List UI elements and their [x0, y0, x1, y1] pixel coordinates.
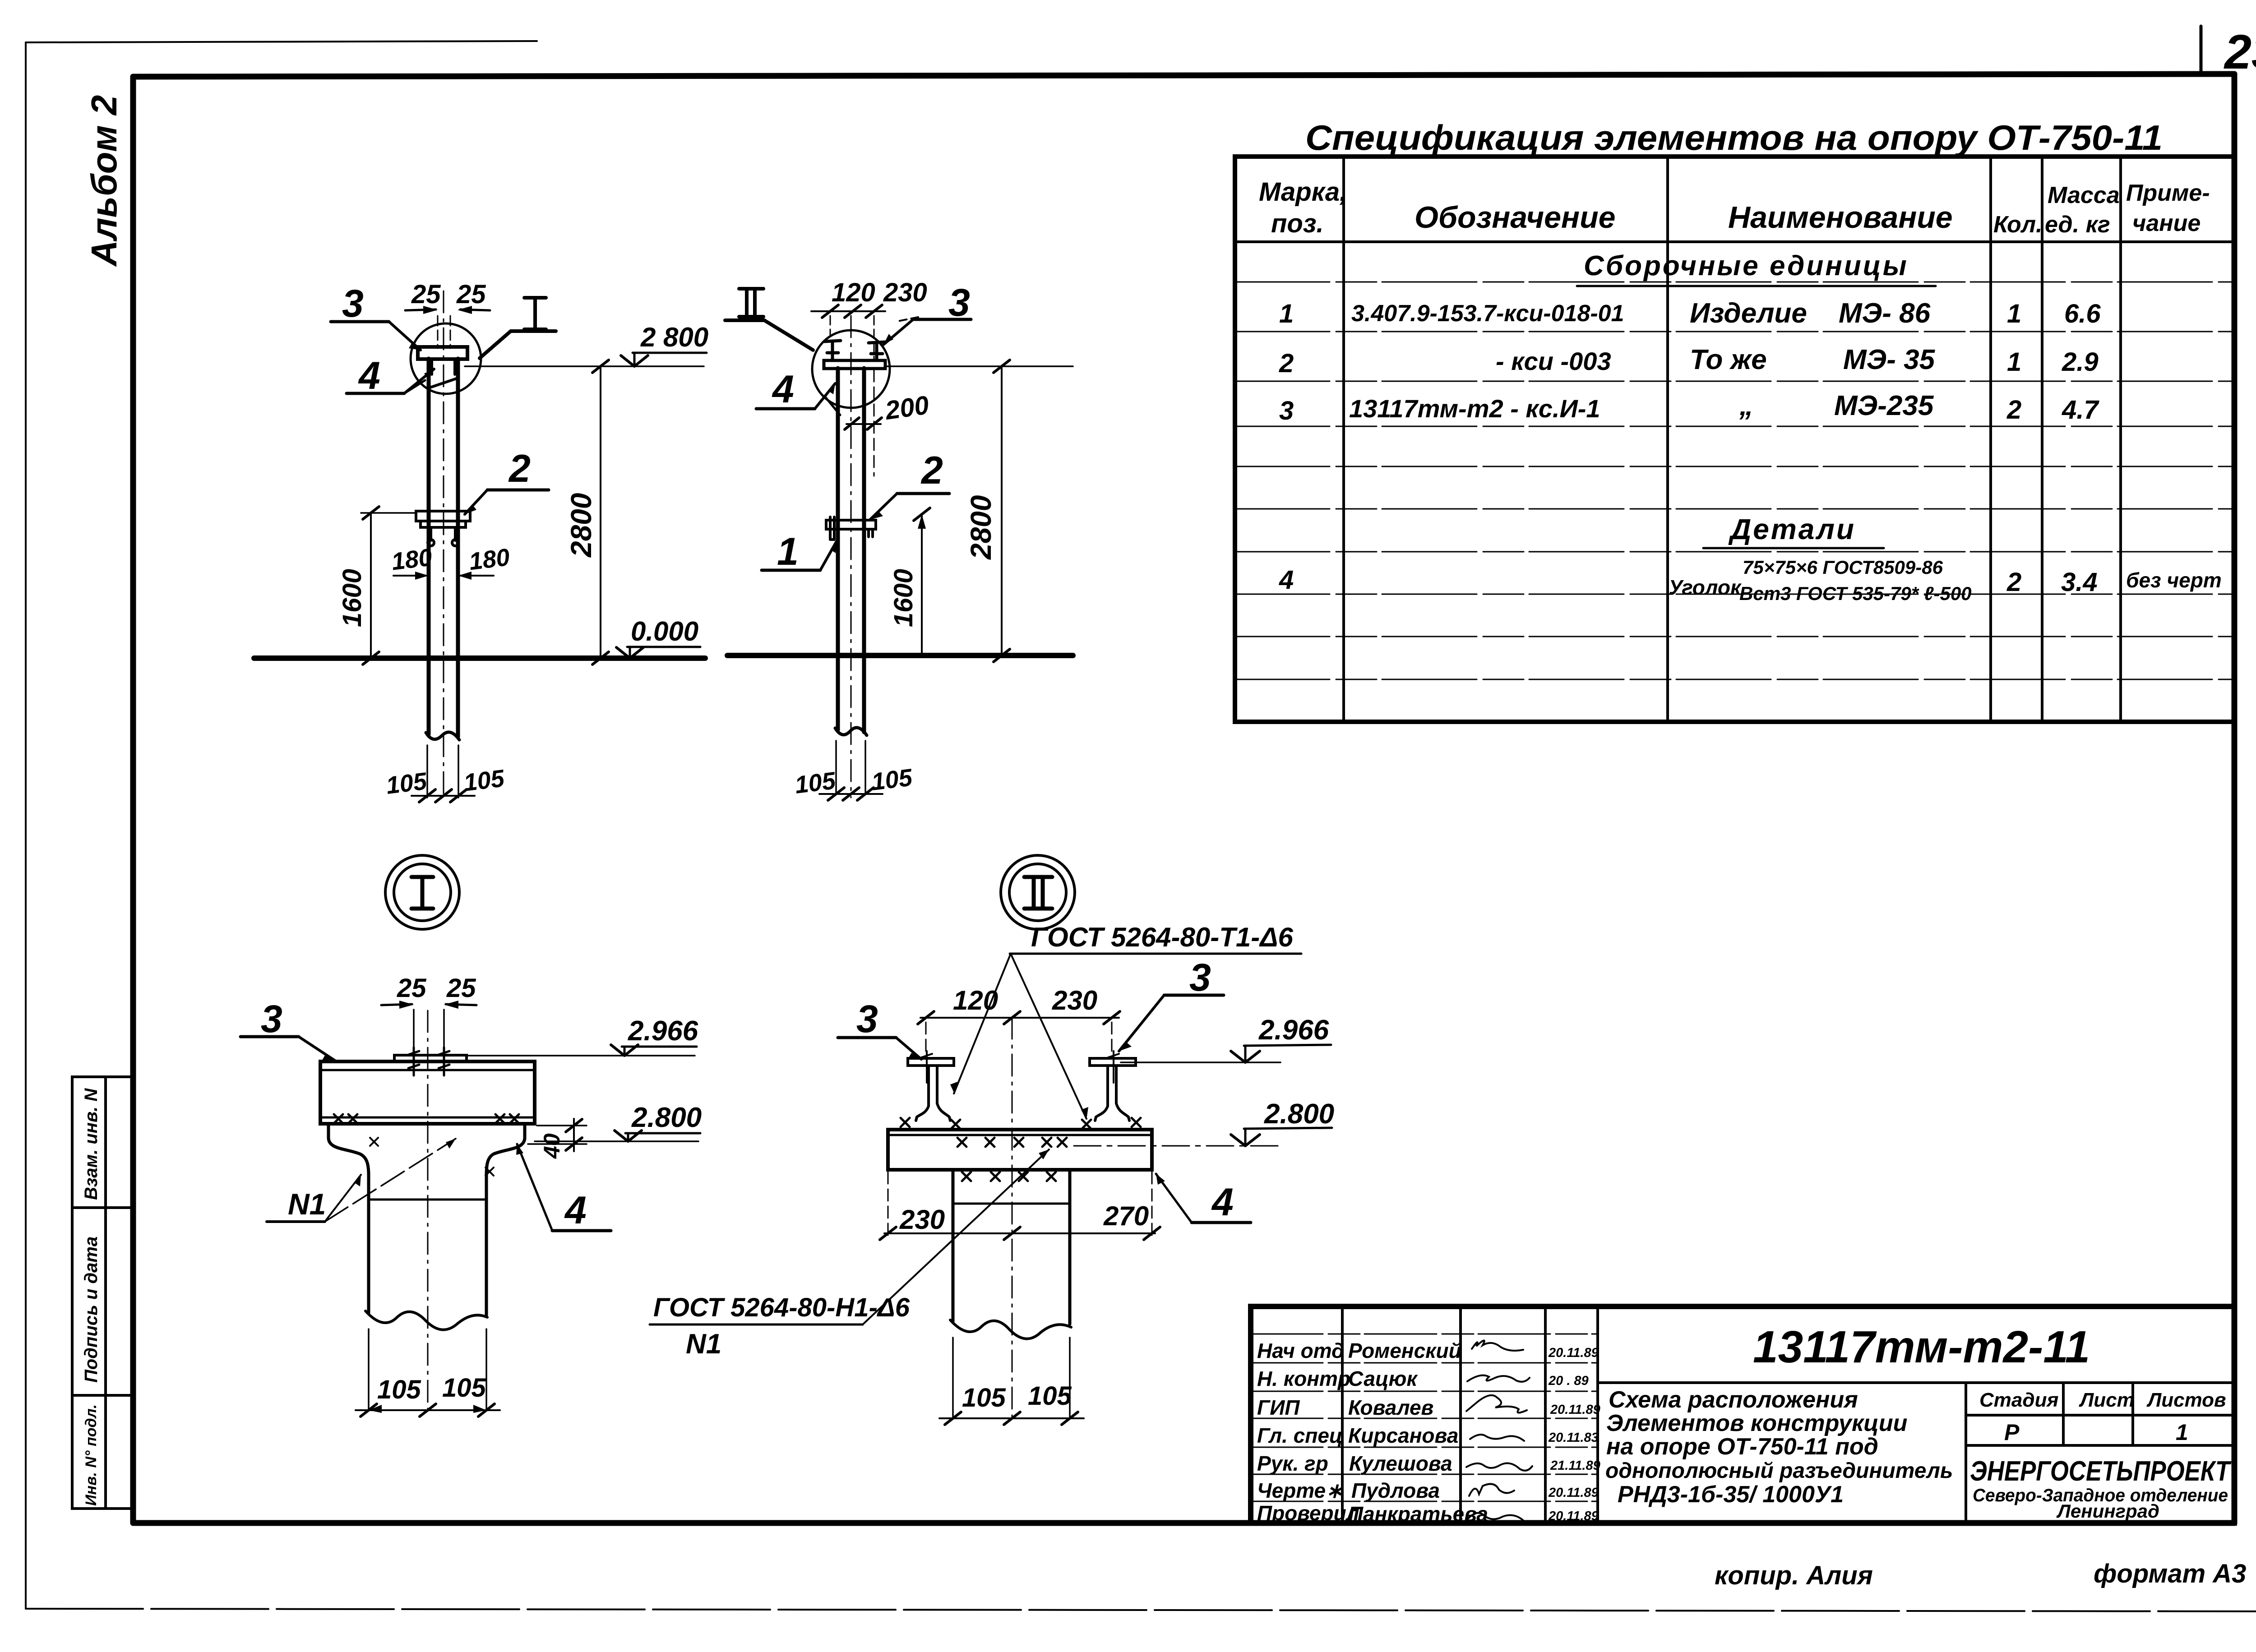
pole2 collar element 1 — [826, 517, 876, 540]
svg-text:Роменский: Роменский — [1348, 1339, 1461, 1362]
svg-text:2800: 2800 — [565, 493, 597, 558]
svg-text:105: 105 — [870, 764, 914, 796]
svg-text:4: 4 — [564, 1189, 587, 1232]
detailI dim 25 25 — [381, 974, 476, 1061]
svg-text:105: 105 — [384, 767, 429, 799]
svg-text:3.4: 3.4 — [2061, 568, 2098, 597]
svg-text:2.800: 2.800 — [631, 1102, 702, 1133]
svg-text:0.000: 0.000 — [631, 616, 698, 646]
svg-text:4: 4 — [1279, 565, 1294, 595]
table row 3 — [1279, 390, 2099, 425]
detailII beam weld X row top — [957, 1138, 1067, 1147]
svg-text:Кулешова: Кулешова — [1349, 1452, 1452, 1475]
svg-text:Обозначение: Обозначение — [1415, 200, 1615, 235]
svg-text:105: 105 — [1028, 1381, 1072, 1411]
detailI dim 40 — [528, 1119, 587, 1159]
detailI label 3 — [240, 997, 336, 1061]
detailI label N1 — [267, 1139, 456, 1222]
svg-text:20.11.89: 20.11.89 — [1548, 1346, 1599, 1360]
pole2 body — [838, 368, 864, 732]
detailI dim 105 105 — [356, 1373, 500, 1417]
pole1 cap plate — [418, 347, 467, 359]
svg-text:Сборочные единицы: Сборочные единицы — [1584, 250, 1909, 281]
svg-text:Лист: Лист — [2079, 1389, 2135, 1411]
weld label GOST T1 — [950, 922, 1301, 1120]
detailII left rail — [908, 1051, 954, 1121]
title block signatures — [1466, 1340, 1532, 1521]
svg-text:МЭ-235: МЭ-235 — [1834, 390, 1934, 421]
svg-text:1: 1 — [1279, 299, 1294, 328]
svg-text:2.966: 2.966 — [1258, 1015, 1329, 1046]
pole2 label 4 — [756, 368, 840, 415]
svg-text:13117тм-т2-11: 13117тм-т2-11 — [1753, 1322, 2090, 1372]
svg-text:однополюсный разъединитель: однополюсный разъединитель — [1605, 1459, 1953, 1483]
detailI flange right curve — [486, 1124, 525, 1176]
svg-text:230: 230 — [883, 278, 927, 307]
svg-text:ед. кг: ед. кг — [2045, 212, 2110, 238]
svg-text:Н. контр: Н. контр — [1257, 1367, 1350, 1390]
specification table grid — [1235, 157, 2234, 722]
detailI bolts — [408, 1047, 449, 1075]
svg-text:2: 2 — [508, 447, 531, 490]
svg-text:1: 1 — [777, 530, 799, 573]
svg-text:20.11.83: 20.11.83 — [1548, 1431, 1599, 1445]
pole1 dim 25 25 — [405, 280, 490, 348]
pole2 detail circle II — [812, 330, 890, 408]
svg-text:чание: чание — [2132, 210, 2201, 236]
detailII break wave — [950, 1320, 1071, 1339]
detailII label 4 — [1156, 1174, 1251, 1224]
pole2 left angle piece — [824, 341, 841, 360]
svg-text:Спецификация элементов на: Спецификация элементов на опору ОТ-750-1… — [1305, 118, 2163, 157]
pole1 dim 105 105 — [384, 765, 506, 802]
svg-text:1: 1 — [2007, 347, 2021, 377]
pole2 section mark II — [725, 289, 813, 350]
svg-text:20.11.89: 20.11.89 — [1550, 1403, 1600, 1417]
detailI break wave — [365, 1311, 487, 1330]
pole1 dim 180 180 — [390, 544, 511, 580]
svg-text:Схема расположения: Схема расположения — [1609, 1387, 1858, 1413]
svg-text:21.11.89: 21.11.89 — [1550, 1458, 1600, 1473]
table row 1 — [1279, 298, 2101, 329]
svg-text:25: 25 — [397, 974, 426, 1003]
svg-text:2: 2 — [2006, 395, 2021, 425]
svg-text:1: 1 — [2176, 1420, 2188, 1445]
pole2 break wave — [835, 728, 867, 735]
svg-text:180: 180 — [390, 544, 434, 576]
pole1 below-break lines — [427, 745, 458, 798]
pole2 label 3 — [883, 281, 971, 345]
svg-text:Сацюк: Сацюк — [1348, 1367, 1418, 1390]
pole2 dim 120 230 — [811, 278, 927, 361]
pole1 collar element 2 — [416, 511, 470, 546]
svg-text:105: 105 — [442, 1373, 486, 1403]
pole2 below-break lines — [836, 741, 865, 794]
svg-text:Ковалев: Ковалев — [1348, 1396, 1433, 1419]
svg-text:13117тм-т2 - кс.И-1: 13117тм-т2 - кс.И-1 — [1349, 394, 1600, 423]
svg-text:Уголок: Уголок — [1669, 576, 1742, 599]
svg-text:ГОСТ 5264-80-Т1-Δ6: ГОСТ 5264-80-Т1-Δ6 — [1031, 922, 1294, 952]
svg-text:Взам. инв. N: Взам. инв. N — [81, 1088, 101, 1200]
svg-text:Детали: Детали — [1728, 513, 1856, 545]
pole1 centerline — [443, 291, 444, 799]
pole1 ground line — [254, 655, 705, 661]
pole1 neck — [429, 359, 458, 388]
svg-text:Приме-: Приме- — [2126, 180, 2210, 206]
svg-text:4.7: 4.7 — [2062, 395, 2099, 425]
svg-text:3: 3 — [261, 997, 282, 1041]
pole1 body — [429, 359, 458, 737]
title block outer — [1251, 1306, 2234, 1523]
pole2 label 1 — [762, 530, 837, 573]
pole1 elevation 2800 mark — [465, 322, 708, 366]
svg-text:Гл. спец: Гл. спец — [1257, 1424, 1343, 1447]
svg-text:без черт: без черт — [2126, 568, 2222, 592]
pole2 level line top — [887, 365, 1073, 367]
svg-text:4: 4 — [1211, 1181, 1234, 1224]
svg-text:Рук. гр: Рук. гр — [1257, 1452, 1328, 1475]
pole1 section mark I — [480, 298, 556, 358]
detailI label 4 — [516, 1144, 611, 1232]
svg-text:Марка,: Марка, — [1259, 177, 1347, 207]
pole2 dim 105 105 — [793, 764, 914, 800]
pole1 detail circle I — [411, 323, 481, 394]
svg-text:20.11.89: 20.11.89 — [1548, 1509, 1599, 1523]
svg-text:270: 270 — [1103, 1201, 1149, 1231]
svg-text:180: 180 — [467, 544, 511, 576]
pole2 dim line 1600 — [889, 508, 930, 655]
svg-text:2: 2 — [920, 449, 943, 492]
svg-text:2.9: 2.9 — [2062, 347, 2099, 377]
svg-text:ЭНЕРГОСЕТЬПРОЕКТ: ЭНЕРГОСЕТЬПРОЕКТ — [1970, 1456, 2232, 1487]
detailII pole centerline — [1012, 1017, 1013, 1421]
detailII right rail — [1090, 1051, 1136, 1121]
svg-text:3: 3 — [342, 282, 364, 325]
svg-text:20.11.89: 20.11.89 — [1548, 1486, 1599, 1500]
svg-text:6.6: 6.6 — [2064, 299, 2101, 328]
svg-text:4: 4 — [358, 354, 380, 397]
svg-text:1600: 1600 — [337, 569, 367, 627]
svg-text:2800: 2800 — [965, 495, 997, 560]
svg-text:4: 4 — [772, 368, 794, 411]
sheet number tick — [2200, 26, 2203, 74]
title block names column — [1348, 1339, 1488, 1526]
svg-text:Кирсанова: Кирсанова — [1348, 1424, 1458, 1447]
pole2 right angle piece — [869, 342, 885, 360]
svg-text:3: 3 — [1189, 956, 1211, 999]
svg-text:То же: То же — [1690, 344, 1767, 375]
svg-text:75×75×6 ГОСТ8509-86: 75×75×6 ГОСТ8509-86 — [1743, 557, 1943, 578]
detailII beam — [888, 1130, 1152, 1170]
pole2 centerline — [851, 316, 852, 798]
detailII below-break lines — [953, 1338, 1070, 1417]
pole2 cap plate — [824, 360, 885, 369]
detailI below-break lines — [369, 1329, 486, 1410]
detailII beam weld X row bottom — [962, 1172, 1056, 1181]
detailII pole body — [953, 1170, 1070, 1324]
detail I marker circle — [385, 855, 459, 929]
pole1 label 3 — [331, 282, 421, 350]
svg-text:ГИП: ГИП — [1257, 1396, 1300, 1419]
detailI top plate — [394, 1055, 467, 1061]
title block stadia header — [1979, 1389, 2226, 1445]
pole2 ground line — [727, 653, 1073, 658]
title block horizontals — [1598, 1383, 2234, 1445]
svg-text:200: 200 — [883, 390, 931, 425]
svg-text:N1: N1 — [686, 1329, 721, 1360]
title block description — [1605, 1387, 1953, 1508]
svg-text:105: 105 — [962, 1383, 1006, 1412]
svg-text:20 . 89: 20 . 89 — [1548, 1374, 1589, 1388]
svg-text:N1: N1 — [288, 1187, 326, 1221]
weld label GOST N1 — [650, 1149, 1049, 1360]
detailII elevation 2.800 — [1074, 1098, 1334, 1146]
svg-text:формат А3: формат А3 — [2094, 1559, 2246, 1588]
svg-text:Панкратьева: Панкратьева — [1348, 1502, 1488, 1526]
svg-text:копир. Алия: копир. Алия — [1715, 1561, 1873, 1590]
svg-text:- кси -003: - кси -003 — [1496, 347, 1611, 375]
detailI flange left curve — [328, 1124, 369, 1176]
detailII rail weld X — [901, 1118, 1141, 1129]
pole1 label 4 — [347, 354, 434, 397]
svg-text:Изделие: Изделие — [1690, 298, 1807, 329]
svg-text:РНД3-1б-35/ 1000У1: РНД3-1б-35/ 1000У1 — [1618, 1481, 1844, 1508]
svg-text:120: 120 — [832, 278, 875, 307]
table row 4 — [1279, 557, 2222, 604]
svg-text:Инв. N° подл.: Инв. N° подл. — [83, 1404, 100, 1506]
detailI flange weld x — [370, 1138, 494, 1176]
title block verticals — [1342, 1306, 2133, 1523]
pole1 dim line 2800 — [565, 360, 609, 664]
svg-text:Черте∗: Черте∗ — [1257, 1479, 1343, 1502]
pole1 break wave — [426, 732, 459, 740]
svg-text:1: 1 — [2007, 299, 2021, 328]
svg-text:Проверил: Проверил — [1257, 1501, 1359, 1525]
detailI elevation 2.800 — [535, 1102, 702, 1141]
svg-text:230: 230 — [1052, 985, 1097, 1015]
svg-text:1600: 1600 — [889, 569, 918, 627]
detailI weld X marks on bottom plate — [334, 1114, 519, 1123]
svg-text:„: „ — [1739, 390, 1753, 421]
svg-text:на опоре ОТ-750-11 под: на опоре ОТ-750-11 под — [1606, 1434, 1878, 1460]
detailI beam box — [320, 1061, 535, 1124]
detailII elevation 2.966 — [1121, 1015, 1331, 1062]
svg-text:3: 3 — [856, 997, 878, 1041]
svg-text:120: 120 — [953, 985, 998, 1015]
table row 2 — [1279, 344, 2099, 378]
svg-text:Кол.: Кол. — [1993, 212, 2043, 238]
svg-text:105: 105 — [377, 1375, 421, 1404]
svg-text:230: 230 — [899, 1204, 945, 1235]
svg-text:Масса: Масса — [2048, 182, 2120, 208]
svg-text:2.966: 2.966 — [628, 1015, 698, 1047]
svg-text:ГОСТ 5264-80-Н1-Δ6: ГОСТ 5264-80-Н1-Δ6 — [653, 1293, 910, 1322]
svg-text:Наименование: Наименование — [1728, 200, 1953, 235]
svg-text:Нач отд: Нач отд — [1257, 1339, 1344, 1362]
svg-text:Листов: Листов — [2146, 1389, 2226, 1411]
detailII dim 120 230 — [918, 985, 1120, 1057]
detailII label 3 right — [1119, 956, 1224, 1051]
detailII dim 230 270 — [880, 1172, 1160, 1240]
svg-text:25: 25 — [456, 280, 486, 309]
svg-text:МЭ- 86: МЭ- 86 — [1839, 298, 1931, 329]
svg-text:Ленинград: Ленинград — [2056, 1500, 2159, 1522]
detailI elevation 2.966 — [467, 1015, 698, 1056]
svg-text:23: 23 — [2224, 24, 2256, 79]
svg-text:Р: Р — [2004, 1420, 2020, 1445]
svg-text:40: 40 — [539, 1133, 564, 1159]
pole1 dim line 1600 — [337, 507, 416, 664]
svg-text:3.407.9-153.7-кси-018-01: 3.407.9-153.7-кси-018-01 — [1351, 300, 1624, 327]
side stamp box — [72, 1077, 134, 1509]
svg-text:Альбом 2: Альбом 2 — [84, 95, 124, 267]
svg-text:2: 2 — [2006, 568, 2021, 597]
detailI pole body — [369, 1173, 486, 1315]
svg-text:2.800: 2.800 — [1264, 1098, 1334, 1130]
pole2 dim line 2800 — [965, 360, 1010, 662]
svg-text:25: 25 — [446, 974, 476, 1003]
svg-text:105: 105 — [462, 765, 506, 797]
detailII dim 105 105 — [939, 1381, 1084, 1425]
pole2 dim 200 — [845, 370, 931, 476]
pole1 elevation 0.000 mark — [616, 616, 700, 658]
detailII label 3 left — [838, 997, 921, 1059]
svg-text:Пудлова: Пудлова — [1351, 1479, 1440, 1502]
svg-text:Вст3 ГОСТ 535-79* ℓ-500: Вст3 ГОСТ 535-79* ℓ-500 — [1739, 583, 1972, 604]
svg-text:Стадия: Стадия — [1979, 1389, 2058, 1411]
title block roles column — [1257, 1339, 1359, 1525]
svg-text:поз.: поз. — [1271, 209, 1324, 238]
svg-text:МЭ- 35: МЭ- 35 — [1843, 344, 1936, 375]
svg-text:2: 2 — [1279, 349, 1294, 378]
svg-text:Элементов конструкции: Элементов конструкции — [1606, 1410, 1907, 1436]
title block dates column — [1548, 1346, 1600, 1523]
title block organization — [1970, 1456, 2232, 1522]
pole2 label 2 — [870, 449, 949, 520]
detail II marker circle — [1001, 855, 1075, 929]
svg-text:3: 3 — [1279, 396, 1294, 425]
svg-text:25: 25 — [411, 280, 441, 309]
svg-text:Подпись и дата: Подпись и дата — [81, 1237, 101, 1383]
svg-text:2 800: 2 800 — [640, 322, 708, 352]
pole1 label 2 — [465, 447, 549, 514]
table header texts — [1259, 177, 2210, 238]
detailI pole centerline — [427, 1011, 429, 1414]
